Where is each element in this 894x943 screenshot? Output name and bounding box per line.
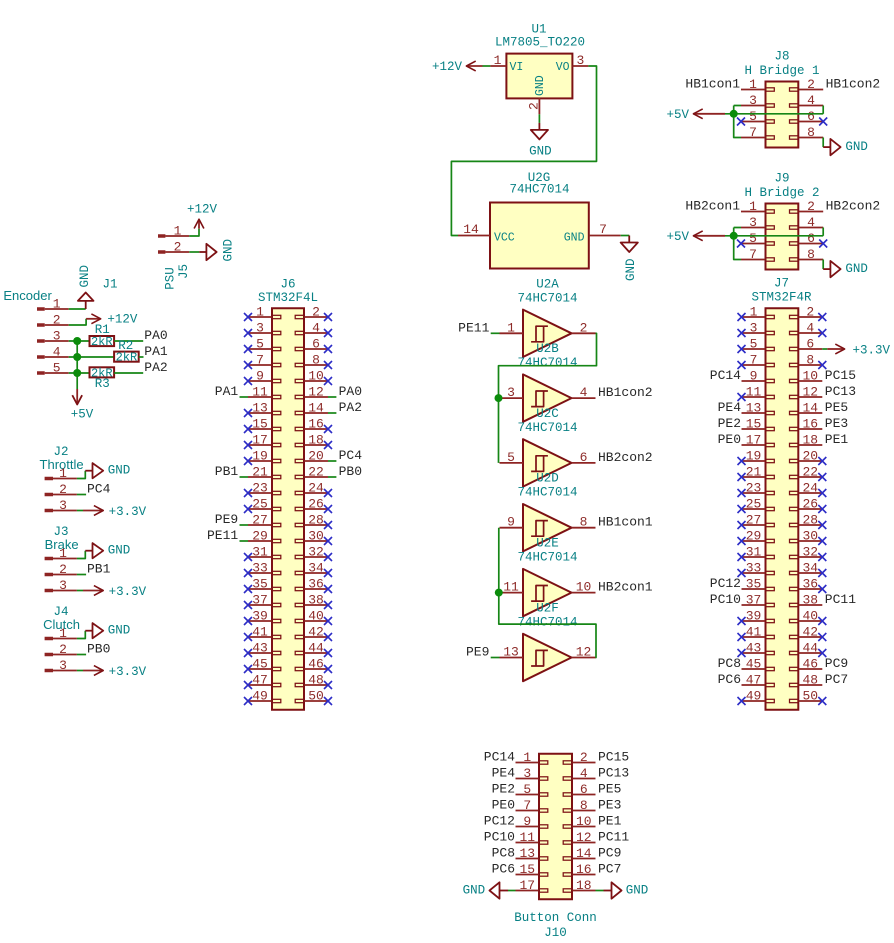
svg-text:33: 33	[252, 561, 268, 576]
svg-text:PE9: PE9	[466, 645, 489, 660]
svg-text:2: 2	[174, 240, 182, 255]
svg-text:1: 1	[256, 305, 264, 320]
svg-text:PE0: PE0	[492, 798, 515, 813]
svg-text:4: 4	[807, 93, 815, 108]
svg-text:U2A: U2A	[536, 277, 559, 291]
svg-text:U2E: U2E	[536, 537, 559, 551]
svg-text:27: 27	[746, 513, 762, 528]
svg-text:PC15: PC15	[598, 750, 629, 765]
svg-text:GND: GND	[626, 884, 649, 898]
svg-text:PC8: PC8	[718, 656, 741, 671]
svg-text:74HC7014: 74HC7014	[509, 183, 569, 197]
svg-text:PE5: PE5	[598, 782, 621, 797]
svg-text:6: 6	[806, 337, 814, 352]
svg-text:VCC: VCC	[494, 232, 515, 245]
svg-text:H Bridge 2: H Bridge 2	[744, 186, 819, 200]
svg-text:PC14: PC14	[484, 750, 515, 765]
svg-text:19: 19	[746, 449, 762, 464]
svg-text:4: 4	[806, 321, 814, 336]
svg-text:27: 27	[252, 513, 268, 528]
svg-text:GND: GND	[529, 144, 552, 158]
svg-text:PC12: PC12	[710, 576, 741, 591]
svg-text:74HC7014: 74HC7014	[517, 616, 577, 630]
svg-text:5: 5	[749, 231, 757, 246]
svg-text:PB1: PB1	[215, 464, 239, 479]
svg-text:+5V: +5V	[666, 230, 689, 244]
svg-text:2: 2	[59, 482, 67, 497]
svg-text:34: 34	[802, 561, 818, 576]
svg-text:STM32F4L: STM32F4L	[258, 291, 318, 305]
svg-text:37: 37	[746, 593, 762, 608]
svg-text:HB2con2: HB2con2	[826, 199, 881, 214]
svg-text:+5V: +5V	[71, 408, 94, 422]
svg-text:30: 30	[308, 529, 324, 544]
svg-text:HB1con1: HB1con1	[685, 77, 740, 92]
svg-text:8: 8	[807, 125, 815, 140]
svg-text:40: 40	[802, 609, 818, 624]
svg-text:+3.3V: +3.3V	[109, 585, 147, 599]
svg-text:7: 7	[256, 353, 264, 368]
svg-text:2: 2	[59, 642, 67, 657]
svg-text:13: 13	[503, 645, 519, 660]
svg-text:PC6: PC6	[718, 672, 741, 687]
svg-text:PE4: PE4	[718, 400, 742, 415]
svg-text:1: 1	[507, 320, 515, 335]
svg-text:41: 41	[746, 625, 762, 640]
svg-text:29: 29	[746, 529, 762, 544]
svg-text:36: 36	[802, 577, 818, 592]
svg-text:74HC7014: 74HC7014	[517, 486, 577, 500]
svg-text:PA1: PA1	[215, 384, 239, 399]
svg-text:3: 3	[59, 658, 67, 673]
svg-text:2kR: 2kR	[91, 335, 113, 349]
svg-text:H Bridge 1: H Bridge 1	[744, 64, 819, 78]
svg-text:31: 31	[252, 545, 268, 560]
svg-text:2kR: 2kR	[91, 366, 113, 380]
svg-text:1: 1	[749, 77, 757, 92]
svg-text:PC11: PC11	[598, 830, 629, 845]
svg-text:U2B: U2B	[536, 342, 559, 356]
svg-text:7: 7	[749, 125, 757, 140]
svg-text:PE11: PE11	[207, 528, 238, 543]
svg-text:HB1con2: HB1con2	[826, 77, 881, 92]
svg-text:20: 20	[308, 449, 324, 464]
svg-text:18: 18	[576, 878, 592, 893]
svg-text:PE3: PE3	[598, 798, 621, 813]
svg-text:3: 3	[749, 93, 757, 108]
svg-text:J10: J10	[544, 926, 567, 940]
svg-text:8: 8	[806, 353, 814, 368]
svg-text:25: 25	[746, 497, 762, 512]
svg-text:43: 43	[746, 641, 762, 656]
svg-text:6: 6	[312, 337, 320, 352]
svg-text:9: 9	[523, 814, 531, 829]
svg-text:PC7: PC7	[598, 862, 621, 877]
svg-text:13: 13	[519, 846, 535, 861]
svg-text:5: 5	[507, 450, 515, 465]
svg-text:HB1con1: HB1con1	[598, 515, 653, 530]
svg-text:PC10: PC10	[484, 830, 515, 845]
svg-text:21: 21	[252, 465, 268, 480]
svg-text:2: 2	[580, 750, 588, 765]
svg-text:PC4: PC4	[339, 448, 363, 463]
svg-text:24: 24	[308, 481, 324, 496]
svg-text:3: 3	[53, 329, 61, 344]
svg-text:32: 32	[802, 545, 818, 560]
svg-text:2: 2	[527, 102, 542, 110]
svg-text:8: 8	[580, 515, 588, 530]
svg-text:2: 2	[807, 199, 815, 214]
svg-text:33: 33	[746, 561, 762, 576]
svg-text:PC14: PC14	[710, 368, 741, 383]
svg-text:6: 6	[807, 231, 815, 246]
svg-text:26: 26	[802, 497, 818, 512]
svg-text:GND: GND	[845, 262, 868, 276]
svg-text:3: 3	[256, 321, 264, 336]
svg-text:39: 39	[252, 609, 268, 624]
svg-text:1: 1	[750, 305, 758, 320]
svg-text:8: 8	[580, 798, 588, 813]
svg-text:39: 39	[746, 609, 762, 624]
svg-text:25: 25	[252, 497, 268, 512]
svg-text:15: 15	[746, 417, 762, 432]
svg-text:44: 44	[802, 641, 818, 656]
svg-text:22: 22	[308, 465, 324, 480]
svg-text:9: 9	[507, 515, 515, 530]
svg-text:17: 17	[252, 433, 268, 448]
svg-text:29: 29	[252, 529, 268, 544]
svg-text:HB2con1: HB2con1	[685, 199, 740, 214]
svg-text:VO: VO	[556, 61, 570, 74]
svg-text:12: 12	[576, 645, 592, 660]
svg-text:50: 50	[802, 689, 818, 704]
svg-text:74HC7014: 74HC7014	[517, 421, 577, 435]
svg-text:HB2con1: HB2con1	[598, 580, 653, 595]
svg-text:8: 8	[312, 353, 320, 368]
svg-text:PB1: PB1	[87, 562, 111, 577]
svg-text:PB0: PB0	[87, 642, 110, 657]
svg-text:30: 30	[802, 529, 818, 544]
svg-text:21: 21	[746, 465, 762, 480]
svg-text:15: 15	[252, 417, 268, 432]
svg-text:1: 1	[59, 546, 67, 561]
svg-text:PA2: PA2	[144, 360, 167, 375]
svg-text:+3.3V: +3.3V	[109, 665, 147, 679]
svg-text:J9: J9	[774, 172, 789, 186]
svg-text:12: 12	[308, 385, 324, 400]
svg-text:14: 14	[576, 846, 592, 861]
svg-text:+12V: +12V	[187, 203, 218, 217]
svg-text:2: 2	[312, 305, 320, 320]
svg-text:17: 17	[746, 433, 762, 448]
svg-text:42: 42	[802, 625, 818, 640]
svg-text:PE5: PE5	[825, 400, 848, 415]
svg-text:+12V: +12V	[107, 313, 138, 327]
svg-text:10: 10	[576, 580, 592, 595]
svg-text:7: 7	[523, 798, 531, 813]
svg-text:PE2: PE2	[492, 782, 515, 797]
svg-text:8: 8	[807, 247, 815, 262]
svg-text:PC7: PC7	[825, 672, 848, 687]
svg-text:47: 47	[252, 673, 268, 688]
svg-text:+3.3V: +3.3V	[853, 343, 891, 357]
svg-text:PC13: PC13	[598, 766, 629, 781]
svg-text:PA2: PA2	[339, 400, 362, 415]
svg-text:J8: J8	[774, 50, 789, 64]
svg-text:3: 3	[750, 321, 758, 336]
svg-text:U2D: U2D	[536, 472, 559, 486]
svg-text:10: 10	[576, 814, 592, 829]
svg-text:38: 38	[802, 593, 818, 608]
svg-text:11: 11	[519, 830, 535, 845]
svg-text:13: 13	[252, 401, 268, 416]
svg-text:24: 24	[802, 481, 818, 496]
svg-text:Button Conn: Button Conn	[514, 911, 597, 925]
svg-text:GND: GND	[108, 464, 131, 478]
svg-text:16: 16	[802, 417, 818, 432]
svg-text:28: 28	[802, 513, 818, 528]
svg-text:1: 1	[53, 297, 61, 312]
svg-text:49: 49	[746, 689, 762, 704]
svg-text:PC15: PC15	[825, 368, 856, 383]
svg-text:16: 16	[308, 417, 324, 432]
svg-text:17: 17	[519, 878, 535, 893]
svg-text:GND: GND	[108, 624, 131, 638]
svg-text:7: 7	[599, 222, 607, 237]
svg-text:12: 12	[802, 385, 818, 400]
svg-text:PE11: PE11	[458, 320, 489, 335]
svg-text:PC11: PC11	[825, 592, 856, 607]
svg-text:2: 2	[807, 77, 815, 92]
svg-text:PE3: PE3	[825, 416, 848, 431]
svg-text:STM32F4R: STM32F4R	[751, 291, 812, 305]
svg-text:J1: J1	[102, 278, 117, 292]
svg-text:14: 14	[802, 401, 818, 416]
svg-text:GND: GND	[78, 265, 92, 288]
svg-text:1: 1	[59, 466, 67, 481]
svg-text:20: 20	[802, 449, 818, 464]
svg-text:34: 34	[308, 561, 324, 576]
svg-text:GND: GND	[463, 884, 486, 898]
svg-text:37: 37	[252, 593, 268, 608]
svg-text:1: 1	[174, 224, 182, 239]
svg-text:HB2con2: HB2con2	[598, 450, 653, 465]
svg-text:VI: VI	[510, 61, 524, 74]
svg-text:44: 44	[308, 641, 324, 656]
svg-text:16: 16	[576, 862, 592, 877]
svg-text:GND: GND	[624, 258, 638, 281]
svg-text:26: 26	[308, 497, 324, 512]
svg-text:1: 1	[59, 626, 67, 641]
svg-text:41: 41	[252, 625, 268, 640]
svg-text:PC13: PC13	[825, 384, 856, 399]
svg-text:PE4: PE4	[492, 766, 516, 781]
svg-text:1: 1	[494, 53, 502, 68]
svg-text:J7: J7	[774, 277, 789, 291]
svg-text:PE1: PE1	[598, 814, 622, 829]
svg-text:46: 46	[308, 657, 324, 672]
svg-text:19: 19	[252, 449, 268, 464]
svg-text:9: 9	[750, 369, 758, 384]
svg-text:PA0: PA0	[144, 328, 167, 343]
svg-text:3: 3	[59, 498, 67, 513]
svg-text:74HC7014: 74HC7014	[517, 291, 577, 305]
svg-text:PC9: PC9	[598, 846, 621, 861]
svg-text:14: 14	[308, 401, 324, 416]
svg-text:28: 28	[308, 513, 324, 528]
svg-text:PE2: PE2	[718, 416, 741, 431]
svg-text:18: 18	[308, 433, 324, 448]
svg-text:5: 5	[256, 337, 264, 352]
svg-text:1: 1	[523, 750, 531, 765]
svg-text:43: 43	[252, 641, 268, 656]
svg-text:GND: GND	[845, 140, 868, 154]
svg-text:4: 4	[580, 766, 588, 781]
svg-text:2: 2	[59, 562, 67, 577]
svg-text:+12V: +12V	[432, 60, 463, 74]
svg-text:6: 6	[580, 782, 588, 797]
svg-text:9: 9	[256, 369, 264, 384]
svg-text:40: 40	[308, 609, 324, 624]
svg-text:PB0: PB0	[339, 464, 362, 479]
svg-text:74HC7014: 74HC7014	[517, 356, 577, 370]
svg-text:18: 18	[802, 433, 818, 448]
svg-text:7: 7	[749, 247, 757, 262]
svg-text:10: 10	[802, 369, 818, 384]
svg-text:PC10: PC10	[710, 592, 741, 607]
svg-text:2: 2	[580, 320, 588, 335]
svg-text:50: 50	[308, 689, 324, 704]
svg-text:4: 4	[580, 385, 588, 400]
svg-text:13: 13	[746, 401, 762, 416]
svg-text:PE1: PE1	[825, 432, 849, 447]
svg-text:J6: J6	[280, 278, 295, 292]
svg-text:HB1con2: HB1con2	[598, 385, 653, 400]
svg-text:GND: GND	[564, 232, 585, 245]
svg-text:3: 3	[749, 215, 757, 230]
svg-text:GND: GND	[534, 75, 547, 96]
svg-text:36: 36	[308, 577, 324, 592]
svg-text:32: 32	[308, 545, 324, 560]
svg-text:5: 5	[749, 109, 757, 124]
svg-text:10: 10	[308, 369, 324, 384]
svg-text:49: 49	[252, 689, 268, 704]
svg-text:PC4: PC4	[87, 482, 111, 497]
svg-text:3: 3	[576, 53, 584, 68]
svg-text:GND: GND	[222, 239, 236, 262]
svg-text:PA0: PA0	[339, 384, 362, 399]
svg-text:LM7805_TO220: LM7805_TO220	[495, 36, 585, 50]
svg-text:J5: J5	[177, 264, 191, 279]
svg-text:2kR: 2kR	[116, 351, 138, 365]
svg-text:23: 23	[746, 481, 762, 496]
svg-text:74HC7014: 74HC7014	[517, 551, 577, 565]
svg-text:4: 4	[312, 321, 320, 336]
svg-text:6: 6	[807, 109, 815, 124]
svg-text:23: 23	[252, 481, 268, 496]
svg-text:PC9: PC9	[825, 656, 848, 671]
svg-text:47: 47	[746, 673, 762, 688]
svg-text:2: 2	[53, 313, 61, 328]
svg-text:7: 7	[750, 353, 758, 368]
svg-text:U2C: U2C	[536, 407, 559, 421]
svg-text:6: 6	[580, 450, 588, 465]
svg-text:5: 5	[523, 782, 531, 797]
svg-text:15: 15	[519, 862, 535, 877]
svg-text:22: 22	[802, 465, 818, 480]
svg-text:45: 45	[746, 657, 762, 672]
svg-text:42: 42	[308, 625, 324, 640]
svg-text:PE9: PE9	[215, 512, 238, 527]
svg-text:3: 3	[507, 385, 515, 400]
svg-text:5: 5	[53, 361, 61, 376]
svg-text:+3.3V: +3.3V	[109, 505, 147, 519]
svg-text:Encoder: Encoder	[3, 288, 52, 303]
svg-text:12: 12	[576, 830, 592, 845]
svg-text:4: 4	[53, 345, 61, 360]
svg-text:+5V: +5V	[666, 108, 689, 122]
svg-text:PC6: PC6	[492, 862, 515, 877]
svg-text:31: 31	[746, 545, 762, 560]
svg-text:35: 35	[746, 577, 762, 592]
svg-text:11: 11	[252, 385, 268, 400]
svg-text:PC8: PC8	[492, 846, 515, 861]
svg-text:38: 38	[308, 593, 324, 608]
svg-text:11: 11	[503, 580, 519, 595]
svg-text:PA1: PA1	[144, 344, 168, 359]
svg-text:2: 2	[806, 305, 814, 320]
svg-text:U1: U1	[531, 22, 546, 36]
svg-text:PE0: PE0	[718, 432, 741, 447]
svg-text:U2F: U2F	[536, 602, 559, 616]
svg-text:45: 45	[252, 657, 268, 672]
svg-text:5: 5	[750, 337, 758, 352]
svg-text:3: 3	[59, 578, 67, 593]
svg-text:46: 46	[802, 657, 818, 672]
svg-text:35: 35	[252, 577, 268, 592]
svg-text:PC12: PC12	[484, 814, 515, 829]
svg-text:3: 3	[523, 766, 531, 781]
svg-text:4: 4	[807, 215, 815, 230]
svg-text:11: 11	[746, 385, 762, 400]
svg-text:PSU: PSU	[163, 267, 177, 290]
svg-text:48: 48	[308, 673, 324, 688]
svg-text:1: 1	[749, 199, 757, 214]
svg-text:GND: GND	[108, 544, 131, 558]
svg-text:48: 48	[802, 673, 818, 688]
svg-text:14: 14	[463, 222, 479, 237]
